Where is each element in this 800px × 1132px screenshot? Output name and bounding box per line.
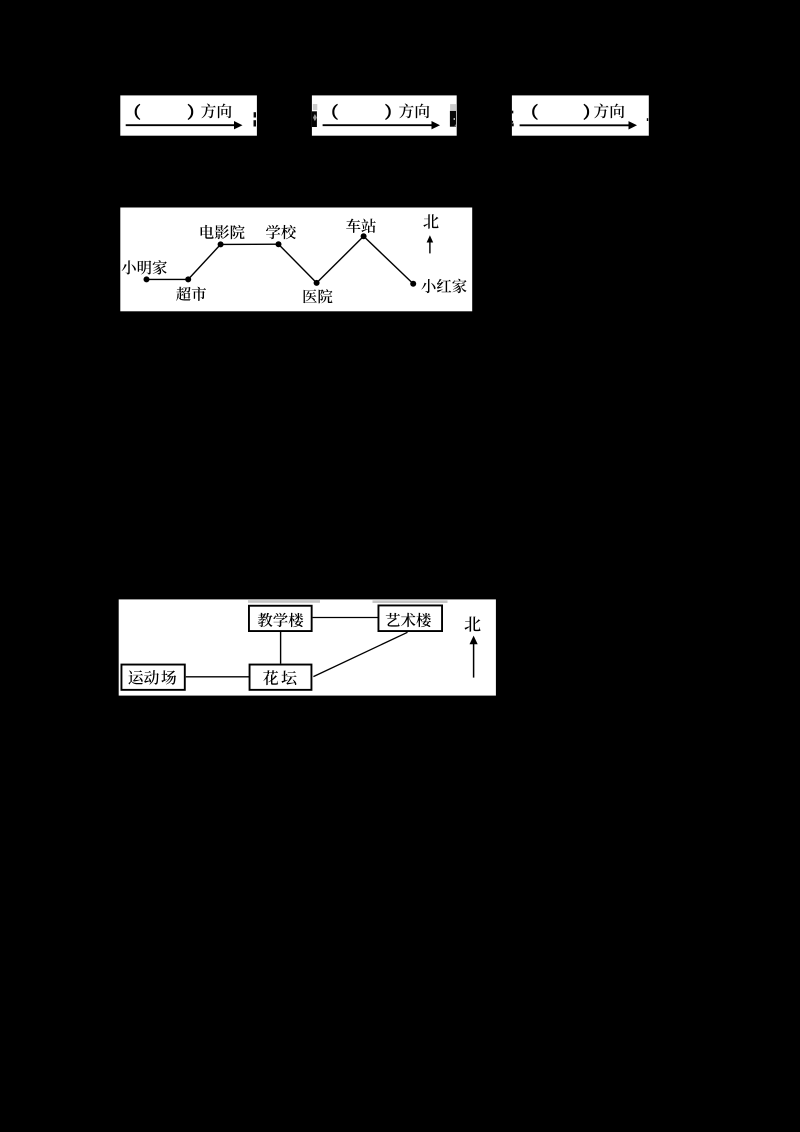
scan artifact nub right edge of box 3 bbox=[647, 118, 648, 121]
label 艺术楼 bbox=[386, 613, 431, 627]
label 花坛 bbox=[263, 670, 278, 685]
node dot cinema bbox=[218, 241, 224, 247]
answer box 1 white panel bbox=[120, 95, 257, 135]
answer box 3 white panel bbox=[512, 95, 649, 135]
route segment station to xiaohong home bbox=[364, 236, 414, 283]
node dot xiaoming home bbox=[144, 276, 150, 282]
box 教学楼 bbox=[249, 606, 312, 631]
route map white panel bbox=[120, 208, 472, 312]
label 医院 bbox=[303, 289, 332, 303]
route segment cinema to school bbox=[221, 243, 279, 245]
box 花坛 bbox=[250, 665, 312, 690]
answer box 3 text （ ）方向 bbox=[533, 104, 625, 120]
answer box 2 white panel bbox=[312, 95, 457, 135]
label 电影院 bbox=[201, 225, 245, 239]
answer box 2 text （ ）方向 bbox=[333, 104, 430, 120]
connector 教学楼 to 艺术楼 horizontal bbox=[313, 617, 378, 619]
scan artifact fragments left edge of box 2 bbox=[312, 104, 317, 127]
node dot supermarket bbox=[185, 276, 191, 282]
answer box 1 rightward arrow bbox=[126, 121, 243, 129]
label 北 (fig3) bbox=[465, 617, 481, 632]
route segment xiaoming home to supermarket bbox=[147, 278, 189, 280]
north arrow (fig2) bbox=[427, 235, 434, 253]
label 小明家 bbox=[122, 260, 167, 274]
route segment supermarket to cinema bbox=[188, 244, 220, 279]
label 超市 bbox=[176, 287, 206, 301]
label 车站 bbox=[346, 219, 376, 233]
label 北 (fig2) bbox=[423, 214, 438, 229]
label 小红家 bbox=[421, 279, 466, 293]
scan artifact gray strip above 艺术楼 bbox=[373, 600, 448, 603]
scan artifact fragments left edge of box 3 bbox=[512, 111, 514, 127]
label 教学楼 bbox=[258, 613, 303, 627]
label 学校 bbox=[266, 225, 296, 239]
node dot xiaohong home bbox=[410, 281, 416, 287]
box 艺术楼 bbox=[378, 605, 442, 631]
scan artifact gray strip above 教学楼 bbox=[248, 600, 320, 603]
connector 花坛 to 艺术楼 diagonal bbox=[313, 632, 407, 676]
node dot station bbox=[361, 233, 367, 239]
north arrow (fig3) bbox=[470, 636, 478, 678]
box 运动场 bbox=[121, 665, 184, 690]
label 运动场 bbox=[128, 670, 143, 684]
answer box 2 rightward arrow bbox=[323, 121, 440, 129]
answer box 3 rightward arrow bbox=[520, 121, 637, 129]
route segment school to hospital bbox=[279, 244, 317, 283]
answer box 1 text （ ）方向 bbox=[135, 104, 231, 120]
connector 运动场 to 花坛 horizontal bbox=[186, 676, 249, 678]
connector 教学楼 to 花坛 vertical bbox=[280, 632, 282, 664]
node dot hospital bbox=[314, 280, 320, 286]
campus map white panel bbox=[119, 599, 496, 695]
scan artifact fragments right edge of box 2 bbox=[450, 104, 456, 127]
scan artifact fragments right edge of box 1 bbox=[254, 112, 257, 126]
node dot school bbox=[276, 241, 282, 247]
route segment hospital to station bbox=[317, 236, 364, 283]
